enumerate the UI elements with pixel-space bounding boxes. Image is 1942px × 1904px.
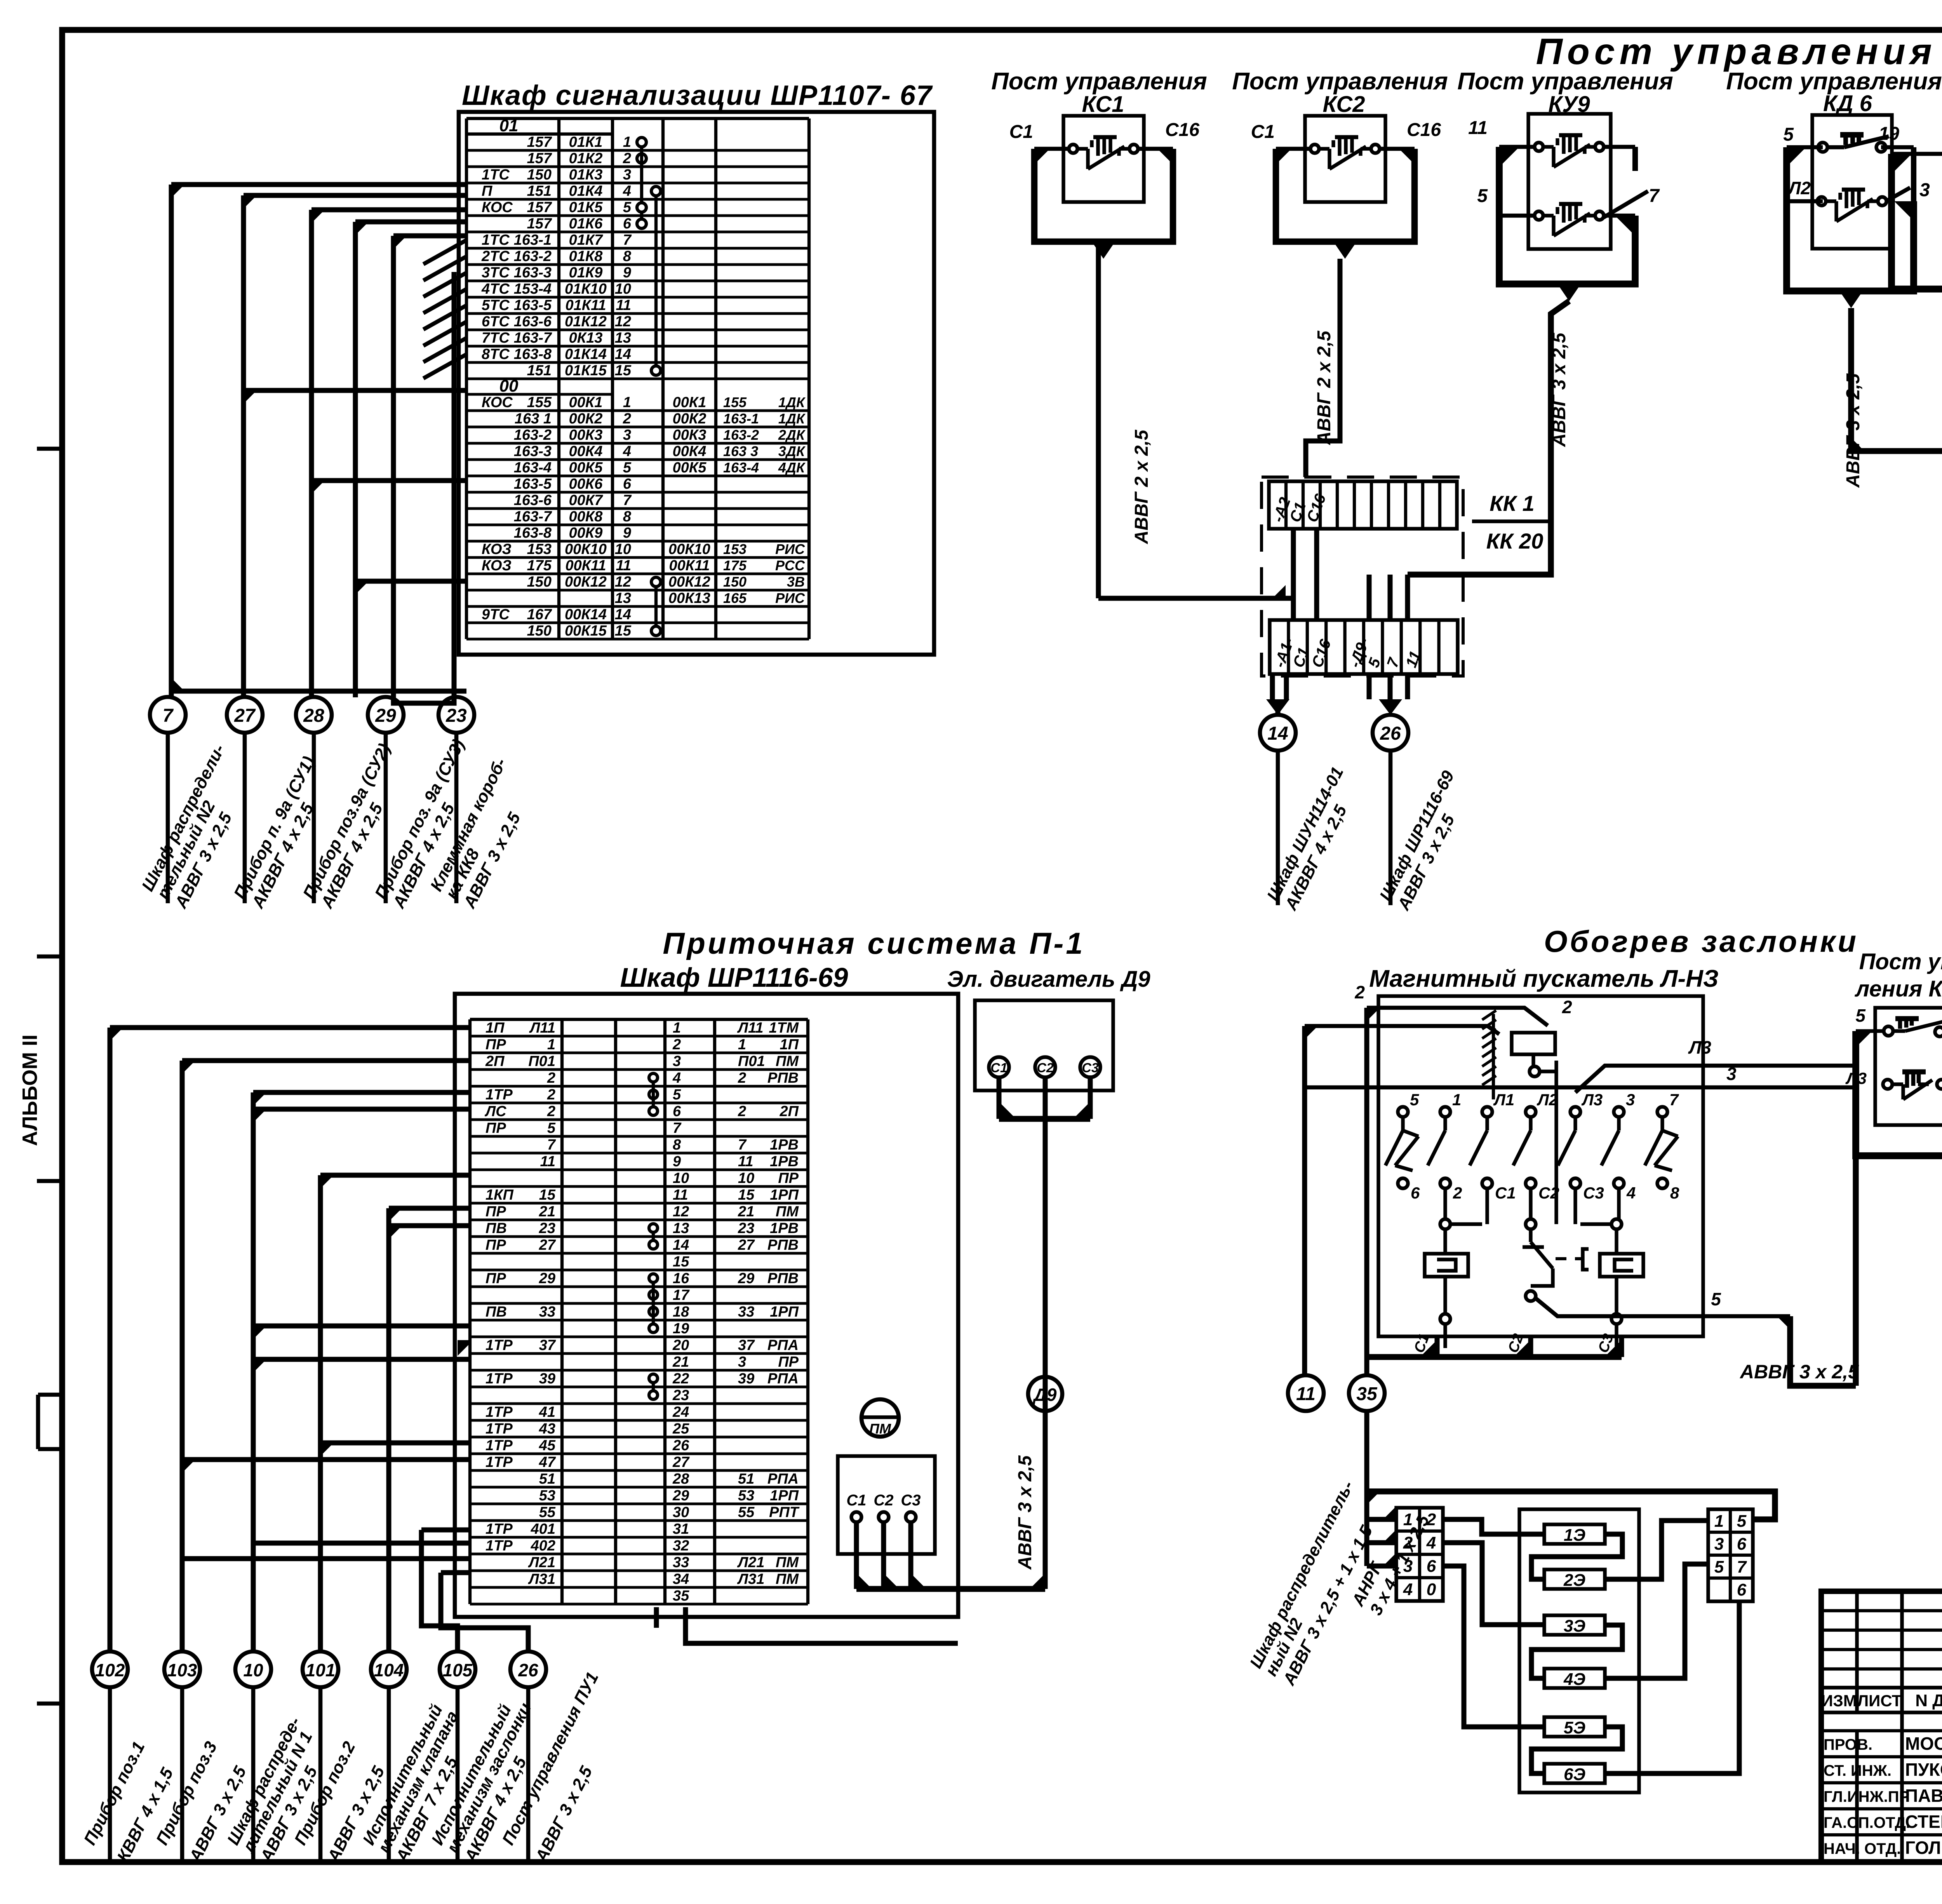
svg-text:N ДОКУМ: N ДОКУМ	[1915, 1691, 1942, 1710]
cabinet ShR1107-67 outer box	[459, 112, 934, 655]
svg-text:15: 15	[615, 362, 632, 379]
svg-text:4: 4	[1426, 1533, 1436, 1552]
svg-text:ПМ: ПМ	[776, 1053, 799, 1070]
cabinet ShR1107-67 title	[462, 80, 933, 111]
svg-text:АВВГ 3 х 2,5: АВВГ 3 х 2,5	[1549, 332, 1570, 447]
svg-text:157: 157	[527, 150, 552, 167]
svg-text:11: 11	[1296, 1384, 1316, 1404]
terminal box KK1 dashed enclosure	[1262, 477, 1463, 676]
svg-text:23: 23	[445, 706, 467, 726]
starter L-NZ contacts	[1385, 1090, 1679, 1202]
svg-text:01: 01	[499, 116, 519, 135]
svg-text:2: 2	[547, 1103, 555, 1120]
control post KU9 title	[1457, 68, 1673, 117]
svg-text:1ТМ: 1ТМ	[769, 1020, 799, 1036]
svg-text:Шкаф сигнализации ШР1107- 67: Шкаф сигнализации ШР1107- 67	[462, 80, 933, 111]
svg-text:ПР: ПР	[486, 1204, 506, 1220]
svg-text:28: 28	[303, 706, 324, 726]
svg-text:5ТС: 5ТС	[482, 297, 510, 314]
svg-text:41: 41	[539, 1404, 555, 1420]
svg-text:11: 11	[616, 557, 631, 574]
svg-text:Л11: Л11	[737, 1020, 764, 1036]
svg-text:1П: 1П	[780, 1036, 799, 1053]
svg-text:АВВГ 2 х 2,5: АВВГ 2 х 2,5	[1314, 330, 1335, 445]
svg-text:Эл. двигатель Д9: Эл. двигатель Д9	[947, 967, 1150, 992]
svg-text:14: 14	[615, 346, 631, 362]
svg-text:163-5: 163-5	[514, 297, 552, 314]
svg-text:29: 29	[375, 706, 396, 726]
table B terminal jumpers	[649, 1073, 658, 1399]
cable labels below circles 102-26	[80, 1669, 635, 1866]
svg-text:РПВ: РПВ	[767, 1070, 799, 1086]
svg-text:00К8: 00К8	[569, 509, 603, 525]
svg-text:01К9: 01К9	[569, 265, 603, 281]
svg-text:6: 6	[623, 216, 632, 232]
svg-text:Л21: Л21	[737, 1554, 764, 1571]
svg-text:163-2: 163-2	[723, 427, 759, 443]
svg-text:ления КУ-ИЗ: ления КУ-ИЗ	[1854, 976, 1942, 1002]
svg-text:ПАВЛОВА: ПАВЛОВА	[1905, 1786, 1942, 1806]
cabinet ShR1116-69 terminal table	[470, 1019, 808, 1604]
control post KU9	[1468, 114, 1660, 301]
svg-text:ЛИСТ: ЛИСТ	[1857, 1691, 1902, 1710]
svg-text:2ТС: 2ТС	[481, 248, 510, 265]
svg-text:1РВ: 1РВ	[770, 1153, 799, 1170]
svg-text:6: 6	[1411, 1184, 1420, 1202]
svg-text:55: 55	[738, 1504, 755, 1521]
svg-text:9: 9	[623, 525, 631, 541]
svg-text:ПУКОВА: ПУКОВА	[1905, 1759, 1942, 1780]
svg-text:8: 8	[1670, 1184, 1679, 1202]
svg-text:3ТС: 3ТС	[482, 265, 510, 281]
svg-text:7: 7	[1669, 1090, 1679, 1109]
svg-text:163-2: 163-2	[514, 427, 552, 443]
svg-text:163-8: 163-8	[514, 346, 552, 362]
svg-text:00К7: 00К7	[569, 492, 604, 509]
svg-text:157: 157	[527, 199, 552, 216]
svg-text:21: 21	[738, 1204, 754, 1220]
svg-text:105: 105	[443, 1660, 473, 1680]
svg-text:150: 150	[527, 623, 552, 639]
control post KU-IZ title	[1854, 949, 1942, 1002]
svg-text:С3: С3	[901, 1492, 921, 1509]
svg-text:8: 8	[623, 509, 632, 525]
svg-text:00К13: 00К13	[668, 590, 710, 606]
svg-text:2: 2	[1403, 1533, 1413, 1552]
svg-text:8: 8	[623, 248, 632, 265]
cable from KD6 to KK2	[1843, 308, 1942, 488]
svg-text:1ТР: 1ТР	[486, 1538, 513, 1554]
svg-text:53: 53	[738, 1488, 754, 1504]
magnetic starter L-NZ box	[1378, 996, 1703, 1336]
svg-text:1РВ: 1РВ	[770, 1220, 799, 1237]
svg-text:АВВГ 3 х 2,5: АВВГ 3 х 2,5	[1739, 1361, 1859, 1383]
svg-text:Шкаф ШР1116-69: Шкаф ШР1116-69	[620, 962, 848, 993]
svg-text:С2: С2	[1037, 1061, 1054, 1075]
svg-text:165: 165	[723, 590, 747, 606]
svg-text:АЛЬБОМ II: АЛЬБОМ II	[18, 1035, 42, 1146]
svg-text:402: 402	[531, 1538, 555, 1554]
svg-text:Л21: Л21	[528, 1554, 555, 1571]
PM box	[838, 1456, 935, 1554]
svg-text:ПР: ПР	[486, 1237, 506, 1253]
svg-text:163-5: 163-5	[514, 476, 552, 492]
svg-text:ПР: ПР	[486, 1270, 506, 1287]
svg-text:153-4: 153-4	[514, 281, 552, 297]
svg-text:10: 10	[615, 281, 631, 297]
svg-text:01К3: 01К3	[569, 167, 603, 183]
svg-text:28: 28	[672, 1471, 689, 1487]
svg-text:104: 104	[374, 1660, 404, 1680]
svg-text:00К2: 00К2	[673, 411, 706, 427]
svg-text:163-1: 163-1	[514, 232, 552, 248]
control post KD6	[1783, 115, 1930, 308]
heater bank feed trunk	[1367, 1411, 1775, 1566]
svg-text:27: 27	[738, 1237, 755, 1253]
svg-text:КС2: КС2	[1323, 92, 1365, 117]
svg-text:1РП: 1РП	[770, 1187, 799, 1203]
svg-text:ЛС: ЛС	[484, 1103, 506, 1120]
svg-text:35: 35	[673, 1588, 689, 1604]
svg-text:157: 157	[527, 134, 552, 150]
svg-text:23: 23	[672, 1387, 689, 1404]
svg-text:9: 9	[673, 1153, 681, 1170]
vertical text ALBOM II	[18, 1035, 42, 1146]
svg-text:19: 19	[1879, 124, 1900, 144]
svg-text:175: 175	[527, 557, 552, 574]
svg-text:00К6: 00К6	[569, 476, 603, 492]
svg-text:45: 45	[539, 1437, 556, 1454]
svg-text:24: 24	[672, 1404, 689, 1420]
svg-text:7: 7	[1649, 186, 1660, 206]
svg-text:Л2: Л2	[1787, 178, 1811, 198]
svg-text:102: 102	[95, 1660, 125, 1680]
svg-text:4Э: 4Э	[1563, 1670, 1585, 1689]
svg-text:3: 3	[738, 1354, 746, 1370]
svg-text:150: 150	[723, 574, 747, 590]
svg-text:Л3: Л3	[1688, 1037, 1712, 1057]
svg-text:10: 10	[673, 1170, 689, 1186]
svg-text:13: 13	[615, 330, 631, 346]
svg-text:1РП: 1РП	[770, 1304, 799, 1320]
heater elements 1E-6E	[1544, 1524, 1605, 1784]
svg-text:11: 11	[738, 1153, 753, 1170]
svg-text:15: 15	[615, 623, 632, 639]
svg-text:1ТС: 1ТС	[482, 232, 510, 248]
pritochnaya system P-1 title	[620, 926, 1085, 993]
svg-text:4: 4	[1403, 1580, 1413, 1599]
svg-text:9: 9	[623, 265, 631, 281]
svg-text:2П: 2П	[485, 1053, 505, 1070]
svg-text:4: 4	[1626, 1184, 1636, 1202]
svg-text:ПР: ПР	[778, 1170, 799, 1186]
heater bank wiring	[1443, 1519, 1739, 1773]
svg-text:150: 150	[527, 574, 552, 590]
svg-text:12: 12	[673, 1204, 689, 1220]
svg-text:51: 51	[539, 1471, 555, 1487]
heater elements box	[1519, 1509, 1639, 1793]
svg-text:5: 5	[1737, 1512, 1747, 1531]
svg-text:163-6: 163-6	[514, 492, 552, 509]
svg-text:5: 5	[547, 1120, 556, 1136]
svg-text:ПВ: ПВ	[486, 1304, 507, 1320]
svg-text:00К1: 00К1	[673, 394, 706, 411]
svg-text:2П: 2П	[780, 1103, 799, 1120]
svg-text:11: 11	[673, 1187, 688, 1203]
KK1 outgoing cables to circles 14 and 26	[1260, 674, 1408, 751]
svg-text:27: 27	[672, 1454, 690, 1470]
svg-text:ПМ: ПМ	[776, 1554, 799, 1571]
svg-text:4ТС: 4ТС	[481, 281, 510, 297]
svg-text:ПРОВ.: ПРОВ.	[1824, 1736, 1872, 1753]
svg-text:14: 14	[1267, 723, 1288, 744]
svg-text:1: 1	[1403, 1510, 1413, 1529]
svg-text:163-7: 163-7	[514, 330, 552, 346]
svg-text:1: 1	[1452, 1090, 1461, 1109]
svg-text:2: 2	[1453, 1184, 1462, 1202]
svg-text:23: 23	[738, 1220, 754, 1237]
svg-text:5: 5	[1855, 1005, 1866, 1026]
svg-text:15: 15	[539, 1187, 556, 1203]
electric motor D9 box	[975, 1000, 1113, 1090]
svg-text:25: 25	[672, 1421, 689, 1437]
svg-text:6: 6	[1737, 1580, 1747, 1599]
motor D9 wiring bus	[999, 1075, 1090, 1589]
svg-text:ПМ: ПМ	[776, 1571, 799, 1587]
cable tag circles 102 103 10 101 104 105 26	[92, 1651, 546, 1861]
svg-text:0: 0	[1427, 1580, 1436, 1599]
svg-text:01К8: 01К8	[569, 248, 603, 265]
heater right terminal grid	[1708, 1509, 1753, 1601]
svg-text:РПВ: РПВ	[767, 1270, 799, 1287]
svg-text:33: 33	[738, 1304, 754, 1320]
svg-text:00К9: 00К9	[569, 525, 603, 541]
KK1 inter-strip wires	[1286, 529, 1408, 620]
svg-text:2: 2	[1354, 982, 1365, 1002]
svg-text:01К6: 01К6	[569, 216, 603, 232]
svg-text:ГА.СП.ОТД.: ГА.СП.ОТД.	[1824, 1814, 1910, 1831]
svg-text:КК 1: КК 1	[1490, 491, 1535, 516]
svg-text:2: 2	[623, 411, 631, 427]
svg-text:163-3: 163-3	[514, 265, 552, 281]
svg-text:1ТР: 1ТР	[486, 1404, 513, 1420]
svg-text:00К11: 00К11	[669, 557, 710, 574]
svg-text:3Э: 3Э	[1564, 1617, 1585, 1636]
svg-text:7: 7	[163, 706, 174, 726]
svg-text:ПМ: ПМ	[869, 1421, 891, 1437]
svg-text:00К4: 00К4	[569, 443, 603, 460]
svg-text:6ТС: 6ТС	[482, 314, 510, 330]
svg-text:Приточная система П-1: Приточная система П-1	[663, 926, 1085, 960]
svg-text:7: 7	[623, 492, 632, 509]
svg-text:00К12: 00К12	[668, 574, 710, 590]
svg-text:39: 39	[738, 1371, 754, 1387]
svg-text:НАЧ. ОТД.: НАЧ. ОТД.	[1824, 1840, 1901, 1857]
svg-text:2: 2	[672, 1036, 681, 1053]
svg-text:1: 1	[623, 134, 631, 150]
svg-text:РПТ: РПТ	[769, 1504, 800, 1521]
cable from KU-IZ down	[1739, 1156, 1859, 1386]
svg-text:10: 10	[738, 1170, 754, 1186]
svg-text:29: 29	[672, 1488, 689, 1504]
svg-text:401: 401	[531, 1521, 555, 1537]
svg-text:1РП: 1РП	[770, 1488, 799, 1504]
svg-text:С1: С1	[1495, 1184, 1516, 1202]
svg-text:0К13: 0К13	[569, 330, 603, 346]
svg-text:155: 155	[527, 394, 552, 411]
svg-text:5: 5	[1714, 1557, 1724, 1577]
svg-text:19: 19	[673, 1320, 689, 1337]
svg-text:155: 155	[723, 394, 747, 410]
svg-text:2ДК: 2ДК	[778, 427, 806, 443]
svg-text:01К5: 01К5	[569, 199, 603, 216]
cable from KU9 to KK1	[1408, 301, 1570, 575]
svg-text:01К12: 01К12	[565, 314, 607, 330]
svg-text:3ДК: 3ДК	[778, 443, 806, 459]
svg-text:14: 14	[615, 606, 631, 623]
svg-text:153: 153	[723, 541, 747, 557]
svg-text:163-1: 163-1	[723, 411, 759, 427]
svg-text:КД 6: КД 6	[1823, 91, 1872, 116]
svg-text:00К3: 00К3	[569, 427, 603, 443]
svg-text:01К15: 01К15	[565, 362, 607, 379]
PM wires to bus	[856, 1522, 1045, 1589]
main title Post upravleniya PU1	[1536, 31, 1942, 72]
cable labels below circles 7-23	[138, 733, 543, 911]
svg-text:Л3: Л3	[1581, 1090, 1603, 1109]
svg-text:4ДК: 4ДК	[778, 460, 806, 476]
svg-text:7ТС: 7ТС	[482, 330, 510, 346]
svg-text:9ТС: 9ТС	[482, 606, 510, 623]
svg-text:16: 16	[673, 1270, 689, 1287]
control post KS2	[1251, 116, 1441, 259]
svg-text:21: 21	[539, 1204, 555, 1220]
wire mesh to cabinet ShR1107-67	[171, 185, 466, 703]
svg-text:7: 7	[547, 1137, 556, 1153]
svg-text:ПР: ПР	[778, 1354, 799, 1370]
svg-text:22: 22	[672, 1371, 689, 1387]
svg-text:КОС: КОС	[482, 199, 513, 216]
svg-text:163-2: 163-2	[514, 248, 552, 265]
cable labels below 14 and 26	[1263, 751, 1476, 913]
cable tag circles 7 27 28 29 23	[150, 697, 474, 733]
packet switch ShU6	[1879, 122, 1942, 305]
svg-text:7: 7	[673, 1120, 682, 1136]
svg-text:АВВГ 3 х 2,5: АВВГ 3 х 2,5	[1843, 373, 1864, 488]
svg-text:13: 13	[615, 590, 631, 606]
svg-text:00К15: 00К15	[565, 623, 607, 639]
svg-text:4: 4	[672, 1070, 681, 1086]
svg-text:5: 5	[1711, 1289, 1721, 1309]
svg-text:5: 5	[673, 1087, 681, 1103]
cable labels at 11 and 35	[1246, 1478, 1433, 1689]
svg-text:37: 37	[738, 1337, 755, 1354]
svg-text:П01: П01	[528, 1053, 555, 1070]
svg-text:2: 2	[547, 1070, 555, 1086]
table A terminal jumpers	[637, 138, 661, 636]
cabinet ShR1107-67 terminal table	[466, 116, 809, 639]
svg-text:151: 151	[527, 183, 552, 199]
svg-text:00К2: 00К2	[569, 411, 603, 427]
svg-text:С16: С16	[1407, 120, 1441, 140]
svg-text:163 1: 163 1	[515, 411, 552, 427]
svg-text:ПМ: ПМ	[776, 1204, 799, 1220]
svg-text:00К1: 00К1	[569, 394, 603, 411]
svg-text:32: 32	[673, 1538, 689, 1554]
svg-text:3: 3	[1726, 1064, 1737, 1084]
svg-text:С16: С16	[1165, 120, 1199, 140]
control post KS2 title	[1232, 68, 1448, 117]
svg-text:167: 167	[527, 606, 552, 623]
svg-text:13: 13	[673, 1220, 689, 1237]
wires from table bottom to PM area	[656, 1607, 958, 1643]
svg-text:1ДК: 1ДК	[778, 411, 806, 427]
control post KS1	[1009, 116, 1200, 259]
svg-text:Пост управления: Пост управления	[1457, 68, 1673, 95]
title block	[1821, 1591, 1942, 1862]
svg-text:01К11: 01К11	[565, 297, 606, 314]
svg-text:01К4: 01К4	[569, 183, 603, 199]
svg-text:1: 1	[738, 1036, 746, 1053]
svg-text:23: 23	[539, 1220, 555, 1237]
svg-text:ПР: ПР	[486, 1036, 506, 1053]
svg-text:10: 10	[243, 1660, 263, 1680]
svg-text:РИС: РИС	[775, 541, 805, 557]
svg-text:7: 7	[623, 232, 632, 248]
svg-text:30: 30	[673, 1504, 689, 1521]
svg-text:27: 27	[539, 1237, 556, 1253]
svg-text:5Э: 5Э	[1564, 1718, 1585, 1737]
svg-text:18: 18	[673, 1304, 689, 1320]
svg-text:С1: С1	[1251, 122, 1275, 142]
svg-text:2: 2	[1426, 1510, 1436, 1529]
svg-text:2: 2	[738, 1070, 746, 1086]
svg-text:3: 3	[1626, 1090, 1635, 1109]
svg-text:01К7: 01К7	[569, 232, 604, 248]
electric motor D9 title	[947, 967, 1150, 992]
svg-text:КОЗ: КОЗ	[482, 541, 512, 557]
svg-text:00К4: 00К4	[673, 443, 706, 460]
svg-text:КОЗ: КОЗ	[482, 557, 512, 574]
svg-text:РПА: РПА	[767, 1337, 799, 1354]
svg-text:4: 4	[623, 443, 631, 460]
svg-text:С3: С3	[1583, 1184, 1604, 1202]
svg-text:1ДК: 1ДК	[778, 394, 806, 410]
svg-text:39: 39	[539, 1371, 555, 1387]
cable from KS1 to KK1	[1098, 242, 1286, 598]
control post KS1 title	[991, 68, 1207, 117]
heater left terminal grid	[1396, 1508, 1443, 1601]
svg-text:С2: С2	[874, 1492, 893, 1509]
svg-text:15: 15	[673, 1254, 689, 1270]
control post KU-IZ	[1845, 1005, 1942, 1156]
svg-text:Л1: Л1	[1493, 1090, 1514, 1109]
svg-text:6: 6	[673, 1103, 681, 1120]
svg-text:ГОЛЬЦМАН: ГОЛЬЦМАН	[1905, 1838, 1942, 1858]
svg-text:8: 8	[673, 1137, 681, 1153]
svg-text:00К10: 00К10	[565, 541, 607, 557]
svg-text:103: 103	[167, 1660, 197, 1680]
svg-text:МОСЕЕНКО: МОСЕЕНКО	[1905, 1733, 1942, 1754]
svg-text:6: 6	[1737, 1535, 1747, 1554]
svg-text:163-4: 163-4	[514, 460, 552, 476]
svg-text:33: 33	[673, 1554, 689, 1571]
svg-text:3: 3	[623, 167, 631, 183]
svg-text:1ТС: 1ТС	[482, 167, 510, 183]
svg-text:11: 11	[540, 1153, 555, 1170]
svg-text:3: 3	[623, 427, 631, 443]
svg-text:150: 150	[527, 167, 552, 183]
